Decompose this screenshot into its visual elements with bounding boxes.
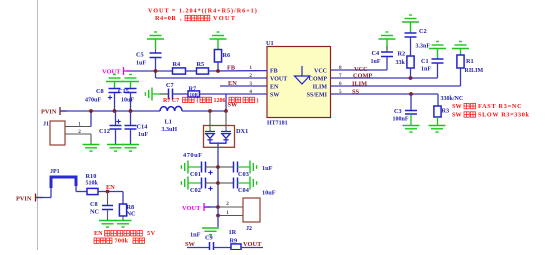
ground J1 pin2	[83, 145, 100, 152]
net ILIM wire	[331, 85, 461, 87]
svg-text:SW: SW	[228, 102, 239, 109]
wire SW to C9	[187, 247, 210, 249]
net VCC wire	[331, 69, 388, 71]
wire row2 right	[218, 182, 234, 184]
ground right row2	[250, 177, 257, 190]
svg-text:510k: 510k	[86, 181, 99, 187]
svg-text:1: 1	[78, 122, 81, 128]
capacitor C1 1nF	[429, 42, 446, 49]
ground left row2	[181, 177, 188, 190]
ground C3	[403, 126, 420, 133]
wire diode cathodes join	[210, 140, 226, 143]
resistor R5	[197, 68, 209, 74]
svg-text:SS/EMI: SS/EMI	[307, 93, 328, 99]
svg-text:DX1: DX1	[236, 128, 248, 135]
svg-text:R3: R3	[442, 107, 450, 114]
svg-text:JP1: JP1	[50, 169, 60, 175]
svg-text:VOUT = 1.204*((R4+R5)/R6+1): VOUT = 1.204*((R4+R5)/R6+1)	[148, 8, 258, 15]
svg-text:FAST R3=NC: FAST R3=NC	[478, 103, 522, 110]
wire row1 right	[218, 166, 234, 168]
svg-text:PVIN: PVIN	[41, 109, 57, 116]
capacitor C14 1uF	[130, 111, 132, 126]
J1 pin 1	[65, 126, 91, 128]
svg-text:C12: C12	[99, 128, 110, 135]
wire gnd-C7	[152, 93, 169, 95]
svg-text:L1: L1	[165, 119, 172, 126]
svg-text:FB: FB	[227, 64, 236, 71]
ground right row1	[250, 161, 257, 174]
J2 pin 1	[218, 215, 243, 217]
ground C12	[107, 145, 124, 152]
svg-text:C15: C15	[118, 88, 129, 95]
svg-text:4: 4	[249, 89, 252, 95]
svg-text:C7: C7	[166, 82, 174, 89]
capacitor C7	[169, 89, 173, 100]
svg-text:C01: C01	[190, 171, 201, 178]
svg-text:EN: EN	[228, 80, 237, 87]
wire SW vertical	[225, 94, 227, 111]
svg-text:EN: EN	[94, 230, 103, 237]
svg-text:3.3uH: 3.3uH	[162, 127, 178, 133]
svg-text:10uF: 10uF	[121, 98, 134, 104]
svg-text:1uF: 1uF	[262, 165, 273, 172]
ground J2	[202, 228, 219, 235]
diode D1a	[205, 132, 215, 140]
ground above C5	[147, 32, 164, 39]
svg-text:R4: R4	[173, 61, 182, 68]
net FB wire to pin1	[209, 70, 268, 72]
svg-text:EN: EN	[106, 184, 115, 191]
svg-text:VOUT: VOUT	[243, 241, 262, 248]
svg-text:470uF: 470uF	[183, 152, 203, 159]
ground R3	[429, 126, 446, 133]
svg-text:R2: R2	[398, 51, 406, 58]
wire C5 to VOUT node	[155, 58, 157, 79]
ground C8 NC	[99, 221, 116, 228]
svg-text:R7 C7: R7 C7	[163, 98, 179, 104]
wire R10 to EN node	[98, 191, 123, 193]
U1 arrow symbol	[295, 66, 310, 84]
resistor R3 330k/NC	[437, 94, 439, 106]
capacitor C4 1uF	[379, 32, 396, 39]
wire row1 to right gnd	[238, 166, 251, 168]
svg-text:VOUT: VOUT	[270, 77, 287, 83]
wire C9 to R9	[214, 247, 232, 249]
svg-text:C9: C9	[205, 234, 213, 241]
svg-text:C4: C4	[372, 50, 381, 57]
svg-text:COMP: COMP	[353, 73, 372, 80]
wire C7-R7	[173, 93, 189, 95]
capacitor C02	[202, 178, 206, 189]
svg-text:C3: C3	[394, 108, 402, 115]
wire R9 to VOUT	[241, 247, 263, 249]
connector J2	[243, 198, 260, 222]
svg-text:HT7181: HT7181	[267, 121, 288, 127]
svg-text:1uF: 1uF	[136, 61, 146, 67]
svg-text:C03: C03	[238, 171, 249, 178]
svg-text:COMP: COMP	[309, 77, 328, 83]
svg-text:470uF: 470uF	[85, 98, 101, 104]
svg-text:R5: R5	[197, 61, 205, 68]
junction FB/R6	[216, 69, 220, 73]
resistor R4	[173, 68, 186, 74]
sheet border	[37, 0, 39, 250]
svg-text:C02: C02	[190, 187, 201, 194]
diode D1a drop	[209, 111, 211, 132]
svg-text:100nF: 100nF	[393, 116, 409, 122]
diode D1b	[221, 132, 231, 140]
wire R7 to SW corner and pin4	[200, 93, 268, 95]
svg-text:RILIM: RILIM	[465, 68, 484, 74]
svg-text:C14: C14	[137, 124, 149, 131]
svg-text:C8: C8	[96, 88, 104, 95]
capacitor C3 100nF	[410, 94, 412, 111]
svg-text:(: (	[197, 97, 199, 104]
svg-text:1uF: 1uF	[371, 59, 381, 65]
svg-text:C1: C1	[421, 58, 429, 65]
J1 pin 2	[65, 133, 91, 135]
wire diode output drop	[217, 143, 219, 207]
svg-text:C04: C04	[238, 187, 250, 194]
ground R8	[115, 221, 132, 228]
svg-text:VCC: VCC	[314, 69, 327, 75]
svg-text:SW: SW	[452, 111, 462, 118]
svg-text:700k: 700k	[115, 238, 129, 245]
junction VOUT/C5	[154, 69, 158, 73]
capacitor C03	[234, 162, 238, 173]
svg-text:2: 2	[249, 73, 252, 79]
net SS wire	[331, 93, 439, 95]
svg-text:1206: 1206	[214, 98, 226, 104]
svg-text:ILIM: ILIM	[352, 81, 367, 88]
svg-text:SLOW R3=330k: SLOW R3=330k	[478, 111, 530, 118]
svg-text:2: 2	[226, 201, 229, 207]
svg-text:R10: R10	[86, 173, 97, 180]
net EN stub	[220, 85, 267, 87]
net COMP wire	[331, 77, 438, 79]
annotation EN note line2	[94, 238, 99, 243]
svg-text:C5: C5	[136, 52, 144, 59]
diode D1b drop	[225, 111, 227, 132]
svg-text:1: 1	[249, 65, 252, 71]
svg-text:R6: R6	[223, 52, 231, 59]
wire row2 to right gnd	[238, 182, 251, 184]
J2 pin 2	[218, 206, 243, 208]
svg-text:J1: J1	[43, 122, 49, 128]
capacitor C12	[115, 111, 117, 126]
net VOUT wire	[127, 70, 173, 72]
net PVIN rail	[60, 110, 160, 112]
diode box DX1	[204, 126, 235, 148]
svg-text:NC: NC	[127, 211, 137, 218]
capacitor C01	[202, 162, 206, 173]
svg-text:1uF: 1uF	[138, 132, 148, 138]
wire row1 left	[188, 166, 202, 168]
svg-text:3.3nF: 3.3nF	[416, 44, 431, 50]
svg-text:SS: SS	[352, 89, 360, 96]
svg-text:C2: C2	[419, 28, 427, 35]
svg-text:EN: EN	[270, 85, 279, 91]
capacitor C8 470uF	[109, 89, 121, 93]
svg-text:10uF: 10uF	[262, 190, 276, 197]
svg-text:5V: 5V	[147, 230, 156, 237]
svg-text:1nF: 1nF	[421, 67, 431, 73]
svg-text:C8: C8	[90, 201, 98, 208]
svg-text:PVIN: PVIN	[16, 196, 32, 203]
svg-text:1: 1	[226, 210, 229, 216]
svg-text:R4=0R: R4=0R	[155, 15, 176, 22]
wire row2 left	[188, 182, 202, 184]
wire R4-R5	[186, 70, 197, 72]
svg-text:J2: J2	[246, 226, 252, 232]
resistor R8 NC	[122, 192, 124, 205]
svg-text:2: 2	[78, 129, 81, 135]
svg-text:3: 3	[249, 81, 252, 87]
capacitor C04	[234, 178, 238, 189]
svg-text:R1: R1	[466, 58, 474, 65]
svg-text:): )	[257, 97, 259, 104]
net SW rail	[182, 110, 226, 112]
svg-text:ILIM: ILIM	[313, 85, 328, 91]
svg-text:1R: 1R	[229, 229, 237, 236]
svg-text:FB: FB	[270, 69, 278, 75]
svg-text:33k: 33k	[396, 60, 406, 66]
wire VOUT pin2	[156, 77, 268, 79]
capacitor C5	[150, 53, 162, 58]
ground above C8	[106, 75, 123, 82]
svg-text:NC: NC	[90, 208, 100, 215]
resistor R6	[214, 50, 221, 63]
svg-text:VOUT: VOUT	[102, 69, 121, 76]
svg-text:SW: SW	[185, 241, 196, 248]
capacitor C15 10uF	[125, 89, 137, 93]
ground above R6	[210, 32, 227, 39]
wire JP1 to R10	[75, 186, 77, 192]
wire PVIN to JP1	[36, 197, 52, 199]
capacitor C8 NC	[107, 192, 109, 206]
ground left row1	[181, 161, 188, 174]
wire row1 to center	[206, 166, 219, 168]
ground above C15	[122, 75, 139, 82]
svg-text:330k/NC: 330k/NC	[441, 96, 464, 102]
svg-text:VOUT: VOUT	[182, 205, 201, 212]
wire J2 gnd	[217, 207, 219, 227]
wire row2 to center	[206, 182, 219, 184]
svg-text:VOUT: VOUT	[213, 15, 236, 22]
svg-text:SW: SW	[270, 93, 279, 99]
svg-text:1nF: 1nF	[190, 231, 201, 238]
ground left of C7	[145, 88, 152, 101]
wire R6 to FB	[217, 62, 219, 71]
svg-text:SW: SW	[452, 103, 462, 110]
capacitor C2 3.3nF	[402, 15, 419, 22]
ground C14	[122, 145, 139, 152]
inductor L1 3.3uH	[160, 106, 182, 111]
resistor R1 RILIM	[452, 42, 469, 49]
